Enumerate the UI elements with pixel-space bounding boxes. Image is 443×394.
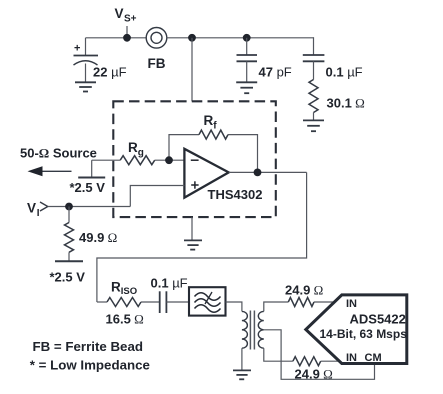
resistor RISO 16.5 ohm — [107, 298, 141, 307]
input chevron — [40, 202, 48, 211]
wire secondary top lead — [264, 302, 289, 311]
transformer T1 secondary winding — [258, 311, 264, 348]
svg-text:g: g — [138, 148, 144, 159]
capacitor C4 0.1uF — [160, 291, 167, 313]
ground under transformer — [233, 370, 251, 379]
wire output return path — [97, 172, 307, 302]
op-amp minus sign — [191, 159, 199, 161]
wire R1 to ground — [313, 113, 315, 121]
ground under C1 — [75, 82, 96, 91]
svg-text:14-Bit, 63 Msps: 14-Bit, 63 Msps — [320, 327, 408, 341]
wire Rf to output — [228, 135, 258, 173]
svg-text:*2.5 V: *2.5 V — [50, 270, 86, 285]
label RISO — [111, 280, 137, 298]
ground under C2 — [236, 82, 257, 93]
svg-text:ISO: ISO — [121, 286, 137, 297]
resistor R1 30.1 ohm — [309, 80, 318, 113]
svg-text:* = Low Impedance: * = Low Impedance — [30, 358, 150, 373]
wire R3 to IN — [314, 301, 335, 303]
junction dot Rg/Rf — [165, 156, 173, 164]
capacitor C3 0.1uF — [303, 55, 325, 80]
wire box ground stem — [191, 217, 193, 240]
junction dot VI — [65, 203, 73, 211]
svg-text:47 pF: 47 pF — [259, 65, 292, 80]
wire RISO leads — [97, 301, 160, 303]
svg-text:50-Ω Source: 50-Ω Source — [20, 146, 97, 161]
op-amp U1 THS4302 — [184, 149, 228, 198]
low impedance 2.5V termination upper — [78, 160, 105, 177]
wire center tap to CM — [264, 330, 375, 380]
svg-text:R: R — [111, 280, 121, 295]
wire supply rail left — [86, 37, 147, 39]
wire feedback up — [169, 135, 199, 161]
svg-text:CM: CM — [365, 352, 382, 364]
svg-text:0.1 µF: 0.1 µF — [326, 65, 363, 80]
svg-text:FB = Ferrite Bead: FB = Ferrite Bead — [33, 339, 143, 354]
wire filter to transformer — [226, 302, 242, 311]
svg-text:22 µF: 22 µF — [93, 65, 127, 80]
svg-text:IN: IN — [346, 352, 357, 364]
wire supply corner to C3 — [313, 37, 315, 55]
junction dot at VS+ — [123, 34, 131, 42]
svg-text:R: R — [128, 140, 138, 155]
wire Rg input — [92, 159, 121, 161]
wire primary to ground — [241, 348, 243, 370]
capacitor C1 22uF — [74, 38, 99, 82]
wire R4 to IN — [321, 360, 340, 362]
svg-text:16.5 Ω: 16.5 Ω — [106, 312, 144, 327]
svg-text:R: R — [204, 113, 214, 128]
transformer core — [250, 311, 254, 350]
label Rg — [128, 140, 144, 159]
resistor R3 24.9 ohm top — [288, 298, 314, 307]
svg-text:ADS5422: ADS5422 — [350, 312, 406, 327]
wire C4 to filter — [166, 301, 189, 303]
svg-text:IN: IN — [346, 298, 357, 310]
label Rf — [204, 113, 218, 132]
svg-text:30.1 Ω: 30.1 Ω — [327, 96, 365, 111]
node VS+ label — [115, 6, 137, 25]
svg-text:S+: S+ — [124, 14, 137, 25]
wire noninverting input — [130, 186, 184, 207]
source arrow — [28, 166, 72, 176]
dashed EVM box — [113, 101, 275, 217]
junction dot output — [254, 169, 262, 177]
svg-text:49.9 Ω: 49.9 Ω — [79, 230, 117, 245]
svg-text:24.9 Ω: 24.9 Ω — [285, 283, 323, 298]
ground under box — [184, 240, 202, 249]
ADC U2 ADS5422 — [306, 295, 407, 364]
ferrite bead FB — [146, 28, 167, 49]
transformer T1 primary winding — [242, 311, 248, 348]
svg-text:+: + — [74, 43, 80, 55]
junction dot supply to box — [188, 34, 196, 42]
svg-text:0.1 µF: 0.1 µF — [151, 276, 188, 291]
op-amp plus sign — [191, 181, 198, 188]
low impedance 2.5V termination lower — [55, 260, 83, 262]
wire supply drop to box — [191, 38, 193, 102]
wire VS+ lead — [126, 26, 128, 38]
resistor Rf — [199, 130, 228, 139]
resistor R2 49.9 ohm — [65, 207, 74, 262]
wire supply rail right — [167, 37, 314, 39]
svg-text:V: V — [27, 201, 36, 216]
junction dot 47pF — [243, 34, 251, 42]
wire Rg to node — [155, 159, 185, 161]
wire op-amp output — [229, 171, 307, 173]
svg-text:FB: FB — [148, 56, 166, 71]
svg-text:V: V — [115, 6, 124, 21]
filter block — [189, 287, 226, 315]
label VI — [27, 201, 40, 220]
svg-text:I: I — [37, 208, 40, 219]
capacitor C2 47pF — [237, 38, 258, 82]
wire VI — [48, 206, 131, 208]
ground under R1 — [303, 120, 324, 131]
svg-text:THS4302: THS4302 — [208, 187, 263, 202]
resistor Rg — [120, 156, 155, 165]
svg-text:*2.5 V: *2.5 V — [70, 180, 106, 195]
resistor R4 24.9 ohm bottom — [293, 357, 321, 366]
wire secondary bottom lead — [264, 348, 293, 361]
